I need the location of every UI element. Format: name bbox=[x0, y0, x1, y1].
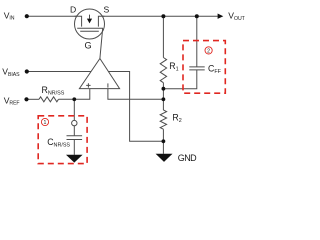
ground GND bbox=[156, 154, 173, 162]
wire bubble to capacitor bbox=[73, 126, 75, 136]
red dashed box 1 bbox=[38, 116, 87, 164]
terminal V_REF bbox=[24, 97, 28, 101]
op-amp U1 triangle bbox=[79, 59, 119, 89]
wire R2 to ground bbox=[162, 129, 164, 154]
wire NR node down to pin bubble bbox=[73, 99, 75, 120]
svg-text:VIN: VIN bbox=[4, 10, 15, 21]
terminal V_BIAS bbox=[25, 69, 29, 73]
wire CFF bottom to R1 bottom node bbox=[163, 70, 196, 89]
resistor RNR/SS zigzag bbox=[39, 97, 58, 102]
svg-text:R2: R2 bbox=[172, 113, 181, 125]
svg-text:2: 2 bbox=[207, 48, 210, 54]
node output to R1 bbox=[161, 14, 165, 18]
callout circle 2 bbox=[205, 47, 212, 54]
wire gate to op-amp output bbox=[100, 28, 103, 58]
wire output node down to R1 bbox=[162, 16, 164, 57]
op-amp plus input mark bbox=[86, 83, 90, 87]
wire output arrow line bbox=[197, 15, 218, 17]
resistor R1 zigzag bbox=[160, 58, 166, 83]
wire capacitor to ground bbox=[73, 140, 75, 155]
op-amp minus input mark bbox=[107, 83, 109, 87]
node feedback bbox=[162, 97, 166, 101]
red dashed box 2 bbox=[183, 41, 225, 94]
svg-text:D: D bbox=[70, 4, 76, 14]
svg-text:VBIAS: VBIAS bbox=[2, 67, 20, 78]
transistor Q1 body arrow head bbox=[87, 19, 92, 24]
transistor Q1 drain hook bbox=[75, 16, 82, 26]
resistor R2 zigzag bbox=[160, 110, 166, 129]
svg-text:GND: GND bbox=[178, 153, 197, 163]
wire V_BIAS to op-amp left slope bbox=[29, 71, 92, 73]
svg-text:G: G bbox=[85, 41, 92, 51]
output arrow head bbox=[218, 14, 224, 19]
wire R1 to feedback node bbox=[162, 83, 164, 110]
NR/SS pin bubble bbox=[72, 120, 77, 125]
capacitor CFF plates bbox=[189, 67, 204, 70]
transistor Q1 gate plate bbox=[80, 30, 99, 32]
svg-text:RNR/SS: RNR/SS bbox=[42, 85, 65, 97]
transistor Q1 body arrow stem bbox=[89, 15, 91, 19]
wire plus input stub bbox=[59, 89, 90, 100]
svg-text:CFF: CFF bbox=[208, 64, 222, 76]
transistor Q1 circle body bbox=[75, 9, 105, 39]
node R2 bottom bbox=[162, 139, 166, 143]
svg-text:1: 1 bbox=[44, 120, 47, 126]
svg-text:CNR/SS: CNR/SS bbox=[47, 137, 70, 149]
ground left bbox=[66, 155, 83, 163]
transistor Q1 source hook bbox=[98, 16, 104, 26]
svg-text:S: S bbox=[104, 4, 110, 14]
terminal V_IN bbox=[25, 14, 29, 18]
node NR bbox=[72, 97, 76, 101]
node output to CFF bbox=[195, 14, 199, 18]
wire minus input stub to feedback node bbox=[108, 89, 163, 100]
wire op-amp right slope to ground rail bbox=[108, 72, 163, 142]
wire source rail to output node bbox=[98, 15, 196, 17]
svg-text:VREF: VREF bbox=[4, 95, 20, 106]
svg-text:R1: R1 bbox=[169, 61, 178, 73]
wire CFF branch bbox=[196, 16, 198, 67]
callout circle 1 bbox=[41, 118, 48, 125]
wire V_IN rail to drain bbox=[29, 15, 82, 17]
transistor Q1 channel plate bbox=[77, 27, 103, 29]
node R1 bottom CFF bbox=[162, 87, 166, 91]
svg-text:VOUT: VOUT bbox=[228, 11, 245, 22]
wire V_REF to resistor bbox=[29, 98, 40, 100]
capacitor CNR/SS plates bbox=[67, 136, 83, 140]
